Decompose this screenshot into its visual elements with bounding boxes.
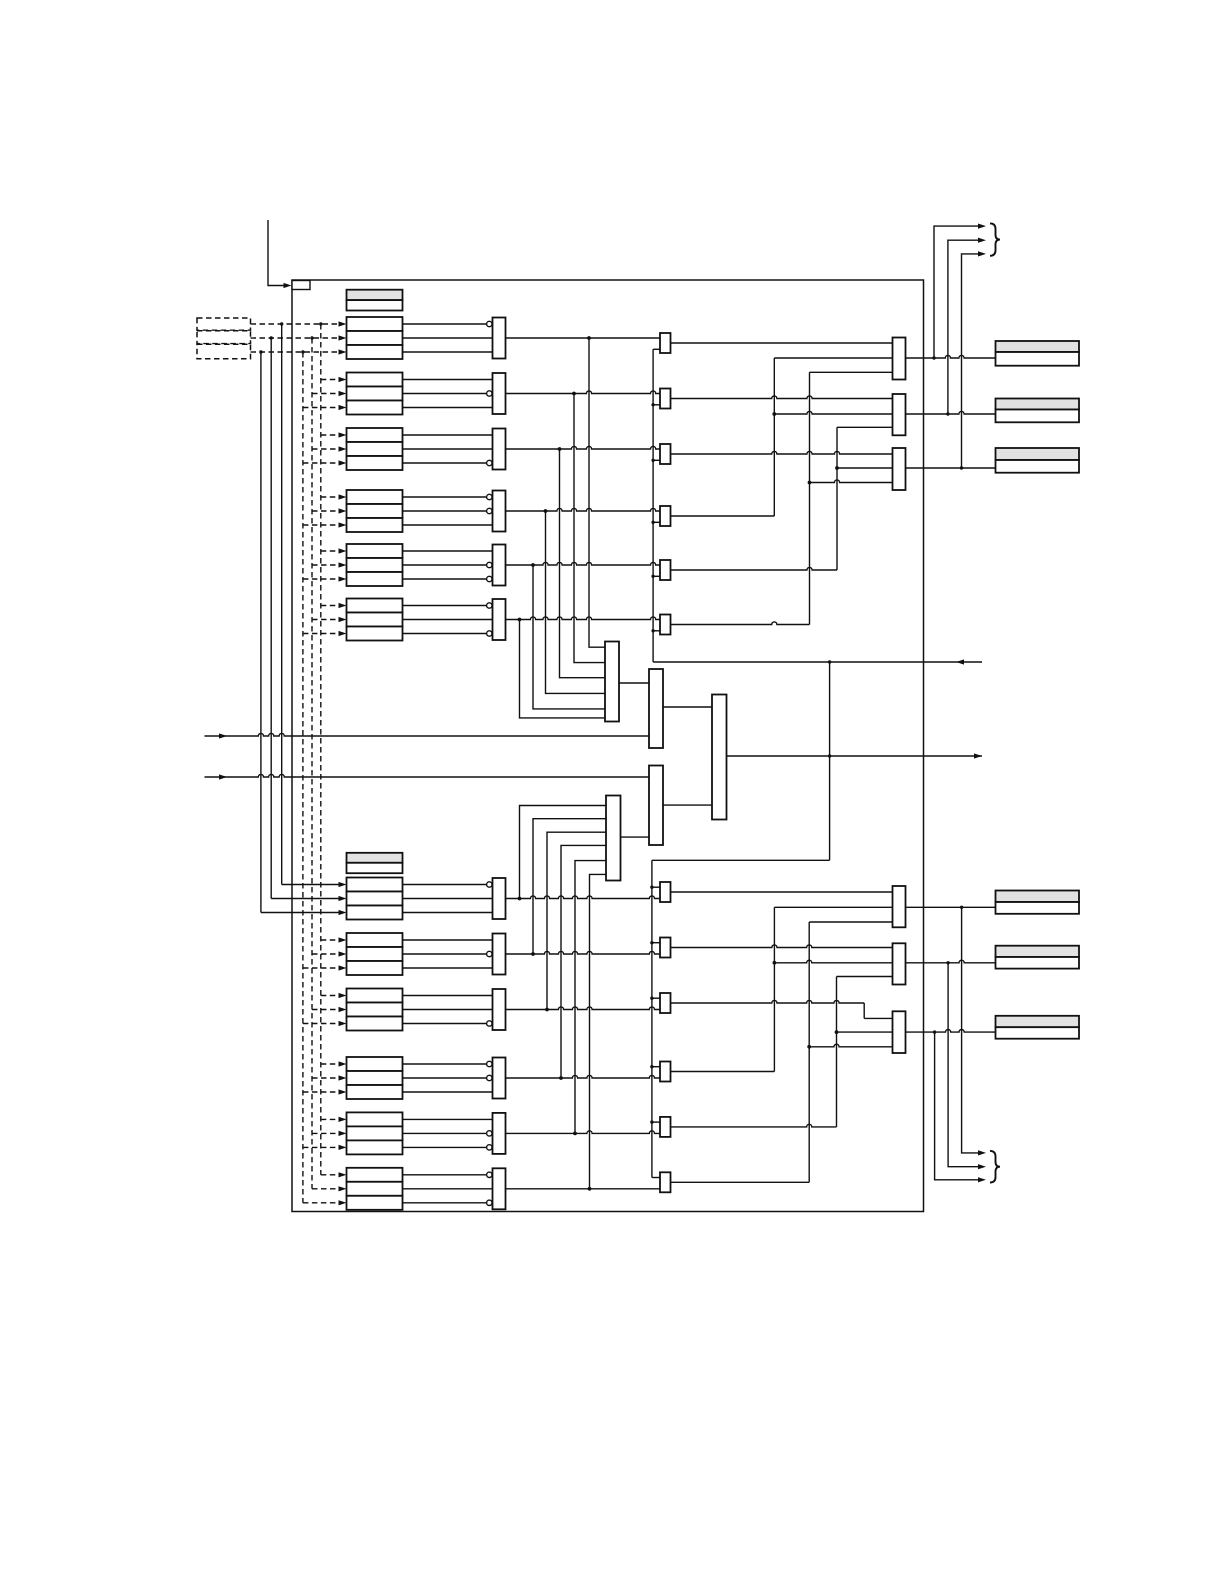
right gate 3 output to mux 3 xyxy=(671,451,893,454)
output box 4 (gray header row + white row) xyxy=(996,891,1080,903)
bus line gate 9 up to bottom collector xyxy=(547,832,606,1009)
junction gate 1 output to bus xyxy=(587,336,591,340)
enable drop vertical xyxy=(829,662,831,860)
dashed input box 3 xyxy=(197,344,251,359)
wire box2 to gate bubble xyxy=(403,1077,487,1079)
gate 11 output line to right gate xyxy=(506,1131,661,1134)
wire box2 to gate xyxy=(403,1009,493,1011)
center box output with right arrow xyxy=(727,755,983,757)
gate for group 11 xyxy=(493,1113,506,1154)
dashed row 2 from input box to group 1 xyxy=(251,337,340,339)
right gate 12 xyxy=(660,1172,671,1192)
bus line gate 5 down to top collector xyxy=(533,565,605,709)
bus line gate 3 down to top collector xyxy=(560,449,606,678)
branch A to mux2 in2 xyxy=(774,411,892,414)
stub to right gate 10 second input xyxy=(652,1066,660,1068)
S2 output to center box xyxy=(663,804,712,806)
dashed stub into group 3 box 2 xyxy=(312,448,340,450)
dashed stub into group 5 box 1 xyxy=(321,550,340,552)
output box 6 (gray header row + white row) xyxy=(996,1016,1080,1027)
dashed stub into group 6 box 3 xyxy=(303,633,340,635)
external input line 1 xyxy=(205,733,650,736)
stub to right gate 7 second input xyxy=(652,886,660,888)
gate for group 10 xyxy=(493,1058,506,1099)
stub to right gate 12 second input xyxy=(652,1177,660,1179)
junction gate 5 output to bus xyxy=(531,563,535,567)
wire box3 to gate bubble xyxy=(403,578,487,580)
right gate 9 xyxy=(660,993,671,1013)
junction gate 2 output to bus xyxy=(572,392,576,396)
wire box1 to gate bubble xyxy=(403,323,487,325)
dashed stub into group 8 box 1 xyxy=(321,939,340,941)
wire box2 to gate xyxy=(403,619,493,621)
gate for group 4 xyxy=(493,491,506,532)
right gate 10 output riser A' xyxy=(671,1071,775,1073)
dashed stub into group 10 box 2 xyxy=(312,1077,340,1079)
dashed stub into group 6 box 1 xyxy=(321,605,340,607)
right gate 2 output to mux 2 xyxy=(671,396,893,399)
mux box 2 xyxy=(893,394,906,435)
bus line gate 4 down to top collector xyxy=(546,511,606,693)
outer enclosure box xyxy=(292,280,924,1212)
dashed stub into group 9 box 2 xyxy=(312,1009,340,1011)
dashed stub into group 9 box 3 xyxy=(303,1023,340,1025)
stub to right gate 9 second input xyxy=(652,997,660,999)
dashed stub into group 4 box 2 xyxy=(312,510,340,512)
enable horizontal line with mid left arrow xyxy=(653,661,982,663)
wire box3 to gate xyxy=(403,967,493,969)
dashed row 3 from input box to group 1 xyxy=(251,351,340,353)
gate 2 output line to right gate xyxy=(506,391,661,394)
stage box S1 xyxy=(649,669,663,748)
right gate 1 output to mux 1 xyxy=(671,342,893,344)
wire box3 to gate bubble xyxy=(403,633,487,635)
dashed stub into group 3 box 3 xyxy=(303,462,340,464)
mux 3 output to output box xyxy=(906,467,996,469)
register group 6: 3 stacked boxes xyxy=(347,599,403,613)
dashed distribution vertical 1 xyxy=(320,324,322,1175)
riser from mux 1 output to top arrow xyxy=(934,226,978,358)
gate 5 output line to right gate xyxy=(506,562,661,565)
dashed stub into group 6 box 2 xyxy=(312,619,340,621)
wire box2 to gate xyxy=(403,448,493,450)
junction gate 10 output to bus xyxy=(559,1076,563,1080)
gate 10 output line to right gate xyxy=(506,1075,661,1078)
enable lower horizontal xyxy=(652,859,830,861)
right gate 4 xyxy=(660,506,671,526)
stub to right gate 8 second input xyxy=(652,942,660,944)
dashed stub into group 2 box 1 xyxy=(321,379,340,381)
right gate 1 xyxy=(660,333,671,353)
bus line gate 1 down to top collector xyxy=(589,338,605,647)
dashed stub into group 2 box 2 xyxy=(312,393,340,395)
wire box3 to gate bubble xyxy=(403,1146,487,1148)
S1 output to center box xyxy=(663,706,712,708)
bottom collector output to S2 xyxy=(621,836,650,838)
dashed stub into group 5 box 3 xyxy=(303,578,340,580)
output box 2 (gray header row + white row) xyxy=(996,399,1080,410)
right gate 4 output riser A xyxy=(671,515,775,517)
riser from mux 4 output to bottom arrow xyxy=(962,907,978,1153)
branch A' to mux5 in2 xyxy=(774,960,892,963)
mux 6 output to output box xyxy=(906,1029,996,1032)
bus line gate 8 up to bottom collector xyxy=(533,819,606,954)
dashed distribution vertical 2 xyxy=(311,338,313,1189)
gate 12 output line to right gate xyxy=(506,1188,661,1190)
wire box2 to gate xyxy=(403,337,493,339)
curly brace grouping bottom arrows xyxy=(990,1151,1000,1183)
dashed stub into group 12 box 3 xyxy=(303,1202,340,1204)
register group 8: 3 stacked boxes xyxy=(347,933,403,947)
dashed stub into group 8 box 2 xyxy=(312,953,340,955)
dashed stub into group 9 box 1 xyxy=(321,995,340,997)
riser from mux 2 output to top arrow xyxy=(948,240,978,414)
right gate 3 xyxy=(660,444,671,464)
riser from mux 6 output to bottom arrow xyxy=(935,1032,978,1180)
gate for group 5 xyxy=(493,545,506,586)
right gate 8 xyxy=(660,938,671,958)
mux box 4 xyxy=(893,886,906,927)
enable vertical (lower half) xyxy=(651,860,653,1177)
bus line gate 11 up to bottom collector xyxy=(575,861,606,1134)
dashed stub into group 11 box 2 xyxy=(312,1132,340,1134)
collector output to stage box S1 xyxy=(619,682,649,684)
wire box3 to gate xyxy=(403,524,493,526)
register group 4: 3 stacked boxes xyxy=(347,490,403,504)
wire box1 to gate xyxy=(403,434,493,436)
register group 10: 3 stacked boxes xyxy=(347,1057,403,1071)
dashed stub into group 2 box 3 xyxy=(303,407,340,409)
wire box3 to gate bubble xyxy=(403,1023,487,1025)
right gate 2 xyxy=(660,389,671,409)
mux box 5 xyxy=(893,943,906,984)
bus line gate 6 down to top collector xyxy=(520,620,606,718)
register group 11: 3 stacked boxes xyxy=(347,1112,403,1126)
gate 8 output line to right gate xyxy=(506,951,661,954)
right gate 7 xyxy=(660,882,671,902)
gate for group 9 xyxy=(493,989,506,1030)
mux 2 output to output box xyxy=(906,411,996,414)
wire box2 to gate bubble xyxy=(403,564,487,566)
branch B to mux3 in3 xyxy=(810,480,893,483)
right gate 6 xyxy=(660,615,671,635)
wire box3 to gate bubble xyxy=(403,1202,487,1204)
right gate 7 output to mux 4 xyxy=(671,891,893,893)
register group 2: 3 stacked boxes xyxy=(347,373,403,387)
dashed stub into group 4 box 1 xyxy=(321,496,340,498)
junction gate 11 output to bus xyxy=(573,1132,577,1136)
dashed stub into group 11 box 1 xyxy=(321,1118,340,1120)
gate 6 output line to right gate xyxy=(506,617,661,620)
register group 1: 3 stacked boxes xyxy=(347,317,403,331)
dashed stub into group 4 box 3 xyxy=(303,524,340,526)
wire box1 to gate bubble xyxy=(403,1063,487,1065)
header box above group 1 (white row) xyxy=(347,300,403,310)
bottom collector box xyxy=(606,796,621,881)
gate 7 output line to right gate xyxy=(506,896,661,899)
dashed stub into group 11 box 3 xyxy=(303,1146,340,1148)
junction gate 9 output to bus xyxy=(545,1008,549,1012)
riser from mux 3 output to top arrow xyxy=(962,254,979,468)
dashed input box 2 xyxy=(197,331,251,344)
mux 1 output to output box xyxy=(906,355,996,358)
wire box1 to gate xyxy=(403,995,493,997)
header box above group 1 (gray row) xyxy=(347,290,403,300)
dashed stub into group 12 box 1 xyxy=(321,1174,340,1176)
wire box2 to gate xyxy=(403,898,493,900)
gate for group 6 xyxy=(493,599,506,640)
stub to right gate 6 second input xyxy=(653,630,660,632)
dashed distribution vertical 3 xyxy=(302,352,304,1203)
wire box1 to gate xyxy=(403,379,493,381)
dashed input box 1 xyxy=(197,318,251,330)
dashed stub into group 10 box 3 xyxy=(303,1091,340,1093)
right gate 12 output riser B' xyxy=(671,1181,810,1183)
register group 7: 3 stacked boxes xyxy=(347,878,403,892)
wire box1 to gate xyxy=(403,550,493,552)
gate for group 3 xyxy=(493,429,506,470)
branch C to mux3 in2 xyxy=(837,467,893,469)
dashed stub into group 8 box 3 xyxy=(303,967,340,969)
wire box1 to gate bubble xyxy=(403,1174,487,1176)
right gate 6 output riser B xyxy=(671,622,810,625)
wire box1 to gate bubble xyxy=(403,884,487,886)
stub to right gate 5 second input xyxy=(653,575,660,577)
wire box2 to gate bubble xyxy=(403,1132,487,1134)
right gate 10 xyxy=(660,1062,671,1082)
curly brace grouping top arrows xyxy=(990,223,1000,255)
register group 3: 3 stacked boxes xyxy=(347,428,403,442)
gate 9 output line to right gate xyxy=(506,1007,661,1010)
stub to right gate 11 second input xyxy=(652,1121,660,1123)
dashed stub into group 5 box 2 xyxy=(312,564,340,566)
wire box1 to gate bubble xyxy=(403,605,487,607)
branch C' to mux6 in2 xyxy=(837,1031,893,1033)
branch B' to mux6 in3 xyxy=(809,1044,892,1047)
stub to right gate 2 second input xyxy=(653,404,660,406)
mux 4 output to output box xyxy=(906,906,996,908)
stub to right gate 1 second input xyxy=(653,348,660,350)
top collector box xyxy=(605,642,619,722)
external input line 2 xyxy=(205,774,650,777)
gate for group 1 xyxy=(493,318,506,359)
solid bit line 3 down to lower group 7 xyxy=(260,352,262,913)
stub to right gate 4 second input xyxy=(653,521,660,523)
wire box2 to gate bubble xyxy=(403,510,487,512)
right gate 11 xyxy=(660,1117,671,1137)
stage box S2 xyxy=(649,766,663,846)
bus line gate 7 up to bottom collector xyxy=(520,806,607,899)
mux 5 output to output box xyxy=(906,960,996,963)
dashed stub into group 12 box 2 xyxy=(312,1188,340,1190)
output box 3 (gray header row + white row) xyxy=(996,448,1080,460)
dashed stub into group 10 box 1 xyxy=(321,1063,340,1065)
gate 1 output line to right gate xyxy=(506,337,661,339)
riser from mux 5 output to bottom arrow xyxy=(948,963,978,1167)
wire box3 to gate xyxy=(403,1091,493,1093)
bus line gate 10 up to bottom collector xyxy=(561,845,606,1078)
junction gate 3 output to bus xyxy=(558,447,562,451)
solid bit line 2 down to lower group 7 xyxy=(270,338,272,899)
big center box xyxy=(712,695,727,820)
right gate 11 output riser C' xyxy=(671,1124,837,1127)
junction gate 12 output to bus xyxy=(588,1187,592,1191)
output box 1 (gray header row + white row) xyxy=(996,341,1080,352)
wire box2 to gate bubble xyxy=(403,953,487,955)
gate 3 output line to right gate xyxy=(506,446,661,449)
junction gate 4 output to bus xyxy=(544,509,548,513)
gate for group 7 xyxy=(493,878,506,919)
mux box 3 xyxy=(893,448,906,490)
right gate 9 output jog to mux 6 xyxy=(671,1000,865,1003)
right gate 8 output to mux 5 xyxy=(671,945,893,948)
wire box1 to gate xyxy=(403,1118,493,1120)
register group 5: 3 stacked boxes xyxy=(347,544,403,558)
register group 9: 3 stacked boxes xyxy=(347,989,403,1003)
bus line gate 12 up to bottom collector xyxy=(590,874,607,1188)
right gate 5 output riser C xyxy=(671,567,838,570)
wire box3 to gate xyxy=(403,912,493,914)
right gate 5 xyxy=(660,560,671,580)
gate for group 2 xyxy=(493,373,506,414)
bus line gate 2 down to top collector xyxy=(574,394,605,663)
mux box 1 xyxy=(893,338,906,380)
arrow into corner box xyxy=(284,283,292,288)
gate for group 12 xyxy=(493,1168,506,1209)
output box 5 (gray header row + white row) xyxy=(996,946,1080,957)
gate 4 output line to right gate xyxy=(506,508,661,511)
junction gate 8 output to bus xyxy=(531,952,535,956)
wire box1 to gate xyxy=(403,939,493,941)
small corner box at top-left of enclosure xyxy=(292,281,310,290)
wire box2 to gate xyxy=(403,1188,493,1190)
dashed stub into group 3 box 1 xyxy=(321,434,340,436)
gate for group 8 xyxy=(493,934,506,975)
enable vertical (upper half) feeding right-gate second inputs xyxy=(652,349,654,662)
mux box 6 xyxy=(893,1011,906,1053)
header box above group 7 (white row) xyxy=(347,863,403,873)
wire box3 to gate xyxy=(403,407,493,409)
junction gate 6 output to bus xyxy=(518,618,522,622)
dashed row 1 from input box to group 1 xyxy=(251,323,340,325)
stub to right gate 3 second input xyxy=(653,459,660,461)
header box above group 7 (gray row) xyxy=(347,853,403,863)
junction gate 7 output to bus xyxy=(518,897,522,901)
top-left input wire xyxy=(268,220,288,286)
register group 12: 3 stacked boxes xyxy=(347,1168,403,1182)
wire box3 to gate bubble xyxy=(403,462,487,464)
wire box1 to gate bubble xyxy=(403,496,487,498)
wire box2 to gate bubble xyxy=(403,393,487,395)
solid bit line 1 down to lower group 7 xyxy=(281,324,283,885)
wire box3 to gate xyxy=(403,351,493,353)
